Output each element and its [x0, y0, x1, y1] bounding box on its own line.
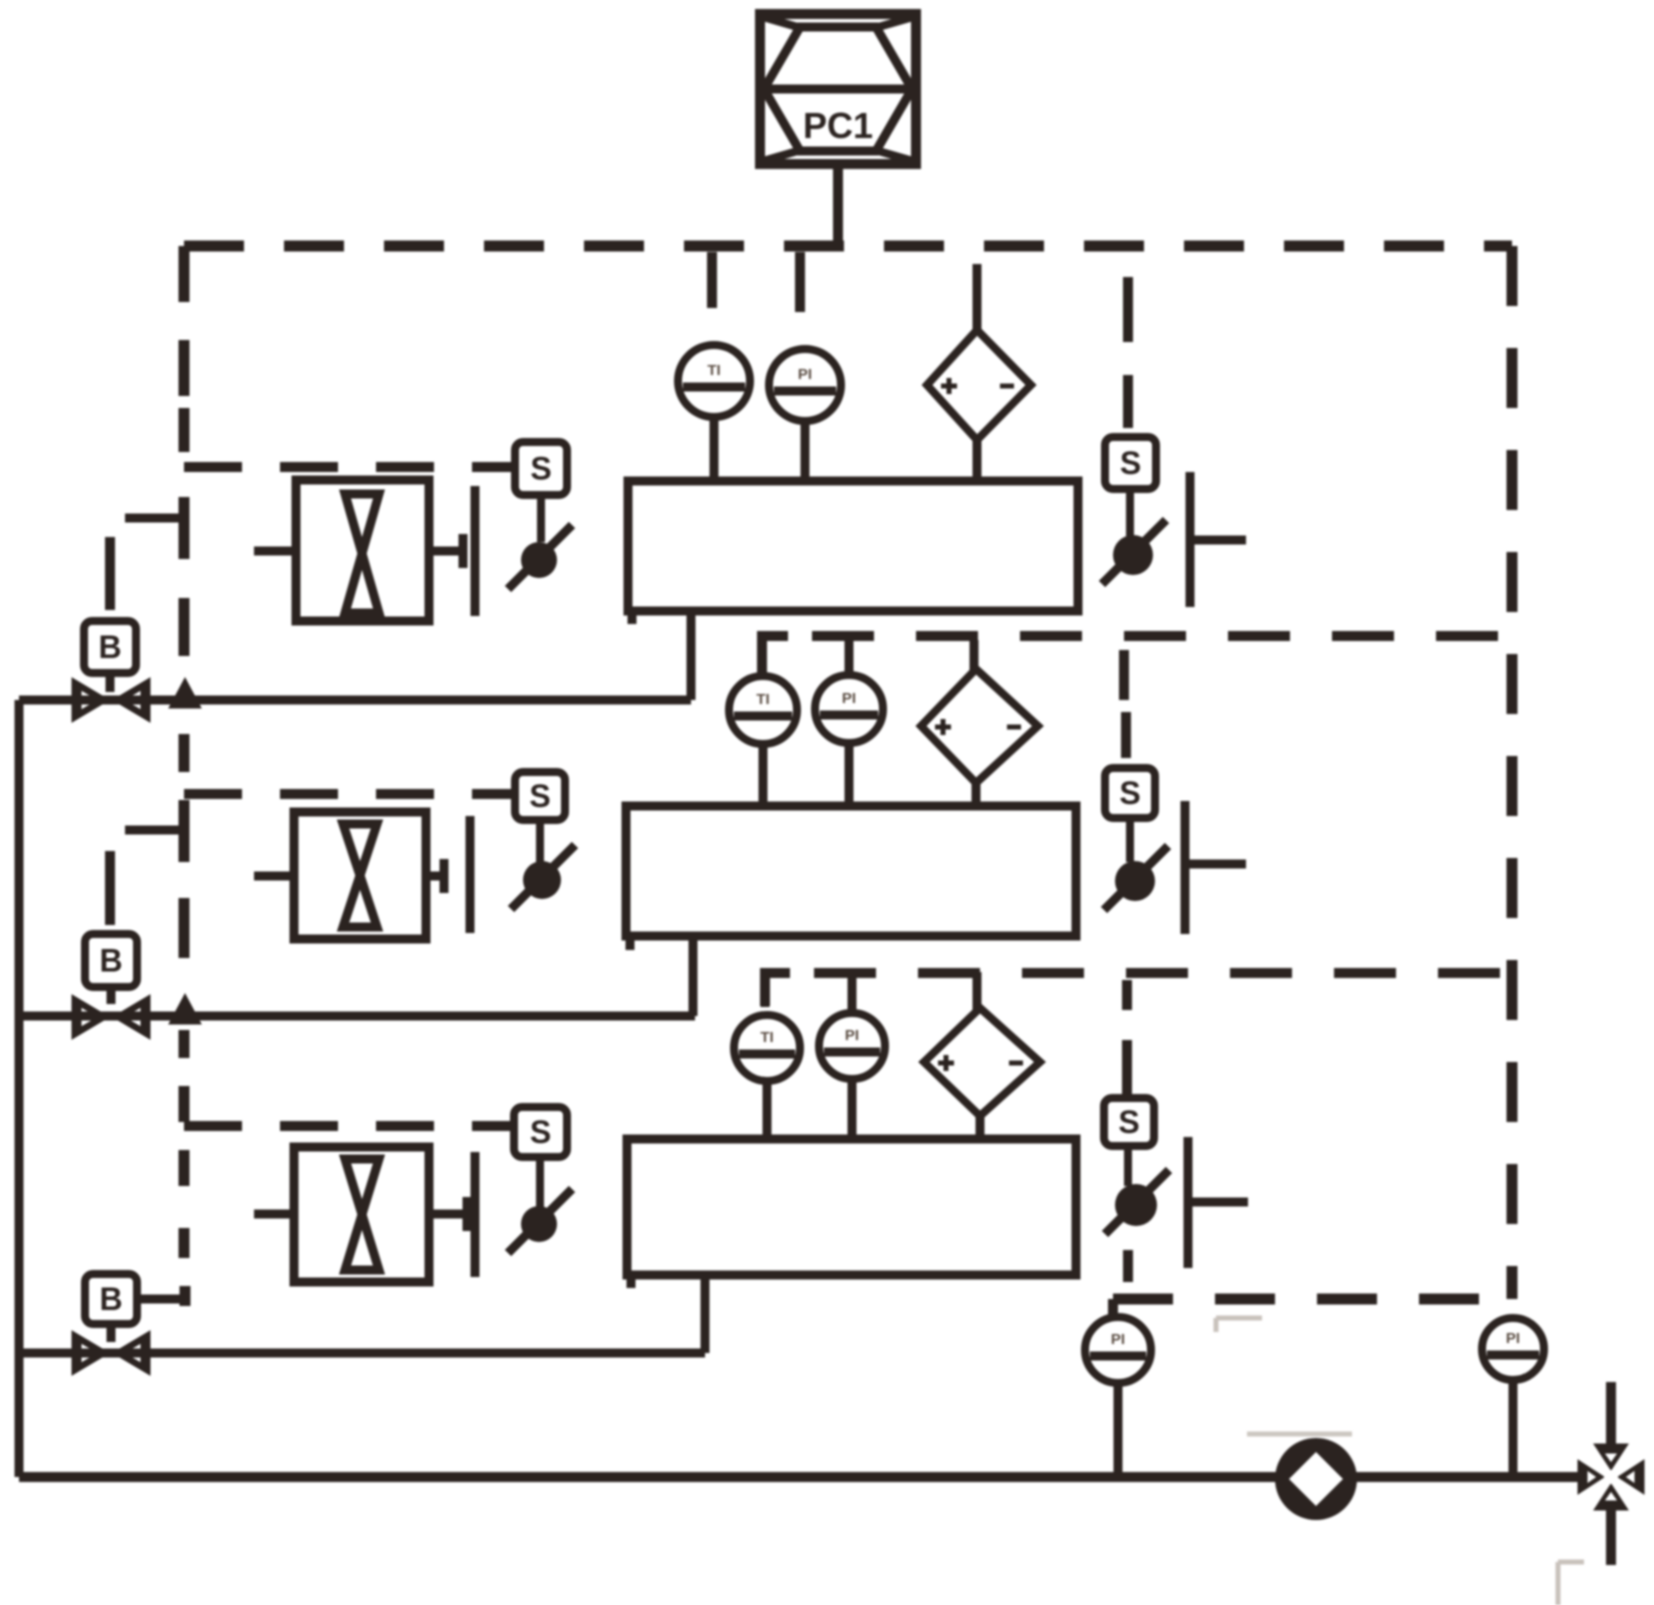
unit1 bottom dashed corner — [762, 636, 788, 676]
fan F1 coupling short bar — [459, 534, 468, 568]
valve B1 signal dash — [105, 537, 115, 610]
solenoid box S1b — [1105, 437, 1156, 489]
fan F3 rotor — [345, 1159, 379, 1270]
gauge TI3 — [734, 1015, 800, 1081]
valve B3 stem — [107, 1324, 116, 1342]
unit1 dashed signal branch — [184, 462, 515, 472]
gauge PI3 signal stub — [848, 978, 857, 1014]
solenoid S3b lower signal dash — [1123, 1250, 1133, 1282]
unit3 right coupling bar — [1184, 1137, 1193, 1268]
gauge PI4 stem — [1114, 1381, 1123, 1477]
fan F3 box — [294, 1147, 429, 1282]
pipe line1 — [19, 696, 691, 705]
valve B2 signal dash — [105, 851, 115, 925]
gauge TI2 stem — [759, 742, 768, 807]
filter FL2 bottom stem — [972, 781, 981, 807]
gauge PI2 stem — [845, 741, 854, 807]
gauge PI1 signal dash — [795, 252, 805, 312]
fan F1 left stub — [254, 547, 297, 556]
unit2 bottom dashed corner — [765, 973, 790, 1006]
pump P1 — [1275, 1438, 1357, 1520]
fan F2 box — [294, 812, 426, 939]
fan F1 right line — [429, 547, 463, 556]
filter FL2 top stem — [970, 640, 979, 671]
actuator box B2 — [85, 934, 137, 987]
valve B2 tap line — [125, 826, 182, 835]
unit2 right coupling line — [1185, 860, 1246, 869]
valve B1 tap line — [125, 514, 182, 523]
flow arrow A2 — [169, 994, 201, 1024]
valve V4 pipe — [1606, 1382, 1616, 1565]
unit2 bottom dashed tee — [1122, 980, 1132, 1010]
fan F3 right line — [429, 1210, 465, 1219]
gauge TI3 stem — [763, 1079, 772, 1140]
unit1 right coupling bar — [1186, 472, 1195, 607]
svg-text:S: S — [530, 451, 551, 487]
fan F3 coupling short bar — [463, 1197, 472, 1231]
solenoid valve S2a stem — [536, 820, 544, 862]
svg-text:S: S — [530, 1114, 551, 1150]
valve B2 tap bar — [179, 800, 190, 862]
unit3 dashed signal branch — [184, 1121, 514, 1131]
battery rack module M2 — [626, 806, 1076, 950]
svg-text:PI: PI — [798, 366, 812, 383]
gauge TI2 — [729, 676, 797, 744]
pipe module1 drop — [687, 611, 696, 700]
solenoid box S1a — [515, 442, 567, 495]
outer dashed border top edge — [184, 241, 1512, 252]
valve B1 tap bar — [179, 497, 190, 559]
erased label remnants — [1216, 1318, 1584, 1605]
fan F2 left stub — [254, 872, 295, 881]
fan F2 right line — [426, 872, 444, 881]
solenoid box S2a — [515, 772, 565, 820]
svg-text:S: S — [1120, 445, 1141, 481]
svg-text:B: B — [99, 1281, 122, 1317]
svg-text:TI: TI — [756, 691, 769, 708]
unit3 right coupling line — [1188, 1198, 1248, 1207]
gauge PI1 stem — [801, 419, 810, 482]
solenoid valve S2b stem — [1126, 818, 1134, 862]
svg-text:TI: TI — [707, 362, 720, 379]
solenoid S2b signal dash — [1121, 712, 1131, 758]
solenoid valve S1a stem — [537, 495, 545, 542]
actuator box B1 — [84, 621, 136, 673]
flow arrow A1 — [169, 678, 201, 708]
actuator box B3 — [85, 1274, 137, 1324]
outer dashed border right edge — [1507, 246, 1518, 1299]
valve B2 — [72, 995, 150, 1039]
solenoid valve S2b — [1104, 846, 1168, 910]
svg-text:PI: PI — [1111, 1331, 1125, 1348]
svg-text:S: S — [1118, 1104, 1139, 1140]
filter FL2 diamond — [921, 669, 1038, 783]
unit1 bottom dashed tee — [1119, 650, 1129, 700]
svg-text:TI: TI — [760, 1029, 773, 1046]
valve B1 stem — [106, 673, 115, 692]
unit1 bottom dashed line — [812, 631, 1512, 641]
solenoid S3b signal dash — [1122, 1040, 1132, 1096]
solenoid box S3b — [1104, 1098, 1154, 1146]
gauge PI3 stem — [848, 1077, 857, 1140]
pipe line2 — [19, 1012, 695, 1021]
gauge TI1 stem — [710, 415, 719, 482]
controller PC1 — [760, 14, 916, 164]
svg-text:PI: PI — [842, 690, 856, 707]
solenoid valve S3b — [1105, 1170, 1169, 1234]
solenoid valve S3b stem — [1124, 1146, 1132, 1186]
solenoid valve S3a stem — [536, 1157, 544, 1208]
svg-text:B: B — [98, 629, 121, 665]
solenoid valve S2a — [511, 845, 575, 909]
pipe module2 drop — [689, 939, 698, 1016]
gauge PI1 — [769, 349, 841, 421]
gauge PI5 — [1482, 1318, 1544, 1380]
valve B3 tap line — [137, 1295, 180, 1304]
svg-text:S: S — [529, 778, 550, 814]
svg-text:S: S — [1119, 775, 1140, 811]
gauge PI3 — [819, 1013, 885, 1079]
outer dashed border bottom-right edge — [1113, 1294, 1512, 1305]
fan F1 box — [296, 480, 429, 621]
outer dashed border left edge — [179, 246, 190, 1258]
gauge TI3 signal stub — [761, 972, 770, 1007]
valve B2 stem — [107, 987, 116, 1004]
gauge PI4 signal stub — [1108, 1299, 1118, 1317]
gauge PI2 — [815, 675, 883, 743]
valve B3 — [72, 1331, 150, 1375]
valve B3 tap tick — [180, 1286, 191, 1306]
solenoid valve S1b stem — [1126, 489, 1134, 536]
solenoid box S3a — [514, 1107, 567, 1157]
wire PC1 stem — [833, 164, 843, 250]
unit2 bottom dashed line — [814, 968, 1512, 978]
filter FL3 bottom stem — [976, 1114, 985, 1140]
solenoid valve S1a — [508, 525, 572, 589]
svg-text:B: B — [99, 943, 122, 979]
battery rack module M1 — [628, 481, 1078, 624]
svg-text:PI: PI — [845, 1027, 859, 1044]
four-way valve V4 — [1578, 1444, 1644, 1510]
pipe module3 drop — [701, 1275, 710, 1353]
filter FL3 diamond — [924, 1008, 1040, 1116]
filter FL1 diamond — [927, 330, 1031, 440]
gauge TI1 signal dash — [707, 252, 717, 308]
unit2 dashed signal branch — [184, 789, 515, 799]
gauge TI1 — [678, 345, 750, 417]
filter FL3 top stem — [973, 972, 982, 1010]
solenoid valve S3a — [508, 1189, 572, 1253]
gauge PI5 stem — [1509, 1378, 1518, 1477]
svg-text:PC1: PC1 — [803, 105, 873, 146]
fan F1 coupling tall bar — [471, 486, 480, 616]
svg-text:PI: PI — [1506, 1330, 1520, 1347]
pipe line3 — [19, 1349, 705, 1358]
fan F1 rotor — [345, 494, 379, 613]
fan F3 coupling tall bar — [471, 1152, 480, 1277]
fan F2 rotor — [343, 824, 377, 927]
unit2 right coupling bar — [1181, 801, 1190, 934]
pipe bottom return — [19, 1472, 1580, 1482]
fan F2 coupling tall bar — [466, 816, 475, 933]
gauge PI4 — [1085, 1317, 1151, 1383]
pipe left bus — [15, 700, 24, 1477]
gauge PI2 signal stub — [845, 640, 854, 676]
solenoid S1b signal dashes — [1123, 277, 1133, 428]
valve B1 — [72, 678, 150, 722]
unit1 right coupling line — [1190, 536, 1246, 545]
filter FL1 bottom stem — [973, 438, 982, 482]
filter FL1 top stem — [973, 264, 982, 332]
solenoid box S2b — [1105, 768, 1155, 818]
fan F2 coupling short bar — [440, 859, 449, 893]
fan F3 left stub — [254, 1210, 295, 1219]
solenoid valve S1b — [1102, 520, 1166, 584]
battery rack module M3 — [627, 1139, 1076, 1288]
